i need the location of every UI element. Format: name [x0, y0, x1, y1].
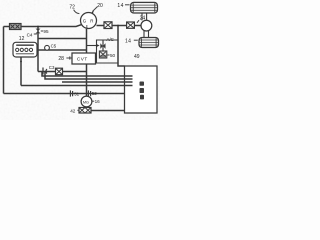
node dot x21 — [20, 61, 22, 63]
svg-text:C4: C4 — [27, 33, 33, 38]
valve C4/95 on x38 — [36, 29, 41, 34]
differential circle — [141, 20, 152, 31]
wire y50 engine to shaft — [37, 49, 87, 51]
wire bus B2 — [45, 72, 133, 80]
svg-text:14: 14 — [125, 38, 131, 44]
label 16 — [92, 100, 94, 102]
svg-text:20: 20 — [97, 3, 103, 9]
svg-text:A/C: A/C — [106, 37, 114, 42]
battery / clutch C3 — [43, 68, 47, 75]
svg-text:16: 16 — [95, 99, 101, 104]
svg-text:50: 50 — [110, 53, 116, 58]
engine block 12 — [13, 42, 37, 57]
clutch 51 ticks — [70, 90, 72, 96]
svg-text:MG: MG — [83, 100, 89, 104]
svg-text:G: G — [83, 19, 87, 24]
wire air box to engine circle — [21, 25, 82, 27]
wire y38.5 to shaft — [38, 38, 87, 40]
upper axle double line — [142, 13, 147, 21]
svg-text:72: 72 — [69, 5, 75, 11]
clutch 52 ticks — [88, 90, 90, 96]
motor-generator MG 16 — [81, 96, 92, 107]
inverter box 42 — [79, 108, 91, 114]
node junction x38 top — [37, 26, 39, 28]
wire engine shaft upper — [86, 29, 88, 53]
svg-text:42: 42 — [70, 108, 76, 113]
wire bus stubs inside ECU — [125, 76, 133, 86]
lower axle double line — [144, 31, 149, 38]
wire left feed into air box — [4, 26, 10, 28]
coupling box on axle (left) — [104, 22, 112, 29]
wire axle horizontal — [97, 25, 142, 27]
solenoid box 50 — [99, 51, 106, 58]
label 50 — [107, 54, 109, 56]
wire left vertical main — [3, 27, 5, 94]
node junction x118 — [117, 25, 119, 27]
wire vertical x38 — [37, 27, 39, 72]
ECU box — [125, 66, 158, 113]
wheel lower 14 — [139, 38, 159, 48]
engine circle 20 — [81, 13, 97, 29]
wire vertical x118 to ECU — [118, 26, 125, 67]
svg-text:14: 14 — [117, 3, 124, 9]
CVT box — [72, 53, 96, 64]
wire 42box to ECU — [91, 110, 125, 112]
wheel upper 14 — [131, 2, 158, 13]
wire y71.5 — [38, 71, 87, 73]
svg-text:95: 95 — [43, 29, 49, 34]
wire bus B1 — [42, 72, 133, 77]
A/C enclosure — [97, 40, 119, 63]
svg-text:CVT: CVT — [77, 56, 88, 61]
coupling box on axle (right) — [127, 22, 135, 28]
air filter box — [10, 24, 22, 30]
svg-text:49: 49 — [134, 54, 140, 60]
wire bottom bus — [4, 93, 125, 95]
sensor C5 — [45, 45, 50, 50]
svg-text:C3: C3 — [49, 65, 55, 70]
wire engine shaft lower — [86, 64, 88, 96]
arrow into A/C valve — [87, 45, 97, 47]
svg-text:R: R — [90, 19, 93, 24]
label 95 — [41, 30, 43, 32]
wire bus B3 — [62, 81, 133, 83]
svg-text:C5: C5 — [51, 44, 57, 49]
svg-text:52: 52 — [92, 91, 97, 96]
svg-text:12: 12 — [19, 36, 25, 42]
svg-text:28: 28 — [58, 56, 64, 62]
wire bus B4 — [21, 85, 133, 87]
svg-text:51: 51 — [74, 91, 79, 96]
wire vertical x21 engine bottom — [20, 57, 22, 86]
coupling box on y71.5 — [56, 68, 63, 75]
ECU text marks — [140, 82, 145, 100]
A/C valve — [102, 41, 104, 52]
